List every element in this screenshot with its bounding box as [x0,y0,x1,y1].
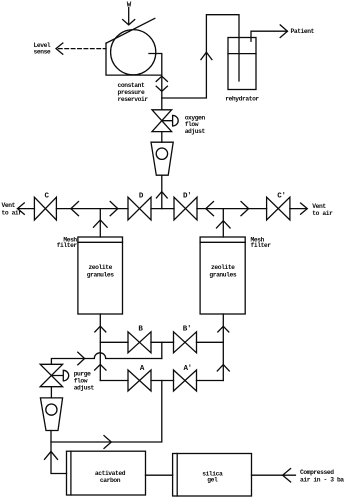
svg-text:flow: flow [185,121,199,128]
svg-text:adjust: adjust [185,128,206,135]
svg-text:A: A [140,365,145,373]
svg-text:sense: sense [34,49,51,56]
svg-text:carbon: carbon [100,477,121,484]
svg-text:Compressed: Compressed [300,469,334,476]
svg-text:Vent: Vent [312,203,326,210]
svg-text:purge: purge [74,370,91,377]
svg-text:pressure: pressure [118,89,146,96]
svg-text:B': B' [183,325,191,333]
svg-text:to air: to air [2,209,23,216]
svg-text:flow: flow [74,378,88,385]
svg-text:constant: constant [118,82,146,89]
svg-text:activated: activated [95,470,126,477]
svg-text:to air: to air [312,210,333,217]
svg-text:granules: granules [87,271,115,278]
svg-text:gel: gel [207,477,218,484]
svg-text:adjust: adjust [74,385,95,392]
svg-text:A': A' [183,365,191,373]
svg-text:zeolite: zeolite [211,264,235,271]
svg-text:Vent: Vent [2,202,16,209]
svg-text:reservoir: reservoir [118,96,149,103]
svg-text:zeolite: zeolite [88,264,112,271]
svg-text:B: B [138,325,143,333]
svg-text:air in - 3 bar: air in - 3 bar [300,476,344,483]
svg-text:filter: filter [251,242,272,249]
svg-text:granules: granules [209,271,237,278]
svg-text:filter: filter [57,242,78,249]
svg-text:D': D' [183,193,191,201]
svg-text:D: D [139,193,144,201]
svg-text:Patient: Patient [291,28,315,35]
svg-text:W: W [127,2,132,10]
svg-text:rehydrator: rehydrator [225,96,259,103]
svg-text:C: C [44,193,49,201]
svg-text:C': C' [277,193,285,201]
